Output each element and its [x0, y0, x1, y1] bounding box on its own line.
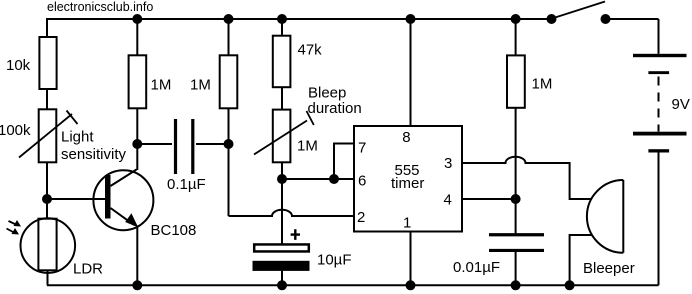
svg-text:1M: 1M [190, 77, 211, 94]
svg-text:1: 1 [403, 215, 411, 232]
svg-text:10µF: 10µF [317, 252, 352, 269]
svg-text:timer: timer [391, 175, 424, 192]
svg-text:duration: duration [308, 100, 362, 117]
svg-text:LDR: LDR [73, 261, 103, 278]
svg-text:2: 2 [357, 209, 365, 226]
svg-text:3: 3 [444, 155, 452, 172]
svg-text:100k: 100k [0, 122, 31, 139]
svg-text:7: 7 [358, 140, 366, 157]
svg-text:BC108: BC108 [151, 222, 197, 239]
svg-text:Bleep: Bleep [308, 85, 346, 102]
svg-text:Light: Light [61, 129, 94, 146]
svg-text:4: 4 [444, 192, 452, 209]
svg-text:10k: 10k [6, 57, 31, 74]
svg-text:electronicsclub.info: electronicsclub.info [47, 0, 153, 14]
svg-text:sensitivity: sensitivity [61, 146, 127, 163]
svg-text:0.01µF: 0.01µF [453, 259, 500, 276]
svg-text:Bleeper: Bleeper [583, 260, 635, 277]
svg-text:0.1µF: 0.1µF [167, 176, 206, 193]
svg-text:9V: 9V [672, 96, 690, 113]
svg-text:47k: 47k [298, 42, 323, 59]
svg-text:1M: 1M [297, 138, 318, 155]
svg-text:8: 8 [402, 129, 410, 146]
svg-text:1M: 1M [151, 77, 172, 94]
svg-text:1M: 1M [532, 76, 553, 93]
svg-text:6: 6 [358, 173, 366, 190]
